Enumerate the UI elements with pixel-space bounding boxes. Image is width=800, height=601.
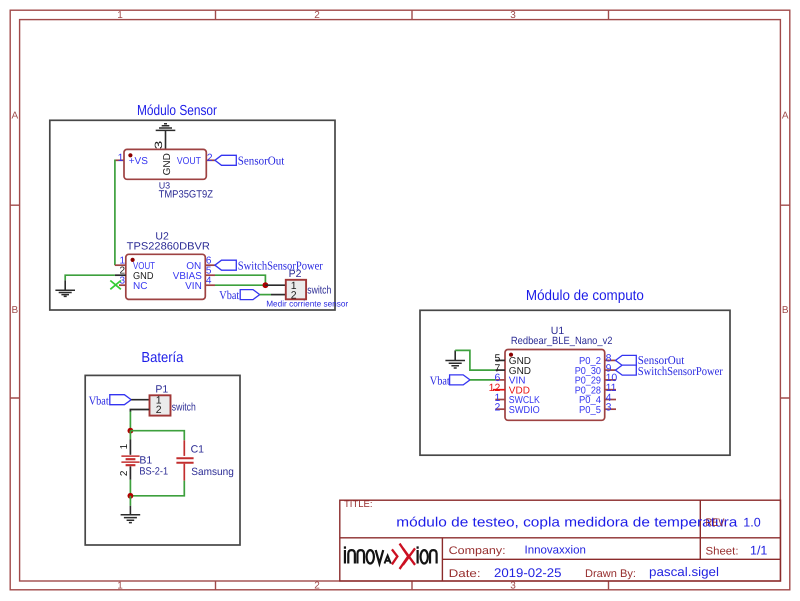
ground GND top of U3 <box>156 124 176 150</box>
ground GND (sensor module) <box>55 280 75 296</box>
svg-text:VOUT: VOUT <box>177 156 201 167</box>
wire ground to U1 pin7 <box>455 350 495 370</box>
U1 pin 11 stub <box>605 389 616 391</box>
svg-text:C1: C1 <box>191 443 205 455</box>
svg-text:SensorOut: SensorOut <box>238 153 285 167</box>
U1 pin 6 stub <box>495 379 505 381</box>
U1 pin 12 stub <box>493 389 505 391</box>
P2 pin2 stub <box>271 294 286 296</box>
U2 pin 2 stub <box>115 274 126 276</box>
svg-text:2: 2 <box>314 10 320 21</box>
svg-text:TMP35GT9Z: TMP35GT9Z <box>159 189 214 201</box>
capacitor C1 bottom lead <box>183 464 185 481</box>
U2 pin 4 stub <box>205 284 215 286</box>
svg-text:B: B <box>782 305 789 316</box>
svg-text:Vbat: Vbat <box>89 394 110 408</box>
connector P2 body <box>286 280 306 300</box>
svg-text:2: 2 <box>119 470 130 476</box>
svg-text:Company:: Company: <box>449 545 506 557</box>
junction node VIN/VBIAS <box>263 282 269 288</box>
svg-text:Redbear_BLE_Nano_v2: Redbear_BLE_Nano_v2 <box>511 335 613 347</box>
title block divider horizontal row2 <box>442 558 780 560</box>
svg-text:3: 3 <box>153 140 165 149</box>
wire U2 pin2 to ground <box>65 275 115 280</box>
svg-text:P2: P2 <box>289 268 302 280</box>
junction node battery bottom <box>127 493 133 499</box>
svg-text:1/1: 1/1 <box>750 544 767 558</box>
ground GND (battery) <box>121 506 141 523</box>
svg-text:BS-2-1: BS-2-1 <box>139 466 168 478</box>
svg-text:1: 1 <box>117 10 123 21</box>
battery B1 plates <box>121 456 139 465</box>
wire U2 pin4 VIN <box>215 284 266 286</box>
wire C1 to junction bottom <box>130 481 184 496</box>
U1 pin 8 stub <box>605 359 616 361</box>
compute module box <box>420 310 730 455</box>
frame row ticks left <box>10 205 19 398</box>
junction node battery top <box>127 428 133 434</box>
U1 pin 9 stub <box>605 369 616 371</box>
wire junction to C1 top <box>130 431 184 441</box>
U1 pin 1 stub <box>495 399 505 401</box>
connector P1 body <box>150 395 171 415</box>
wire P1 pin2 vertical green <box>129 412 131 431</box>
svg-text:B: B <box>11 305 18 316</box>
svg-text:Drawn By:: Drawn By: <box>585 568 636 580</box>
svg-text:3: 3 <box>606 402 612 414</box>
net flag Vbat (battery) <box>110 395 131 405</box>
microcontroller U1 body <box>505 350 605 421</box>
battery B1 bottom lead <box>129 466 131 479</box>
svg-text:VIN: VIN <box>185 281 202 292</box>
capacitor C1 top lead <box>183 440 185 456</box>
svg-text:1.0: 1.0 <box>743 516 760 530</box>
battery module box <box>85 375 240 545</box>
U3 pin 2 stub <box>206 159 215 161</box>
svg-text:A: A <box>11 111 18 122</box>
svg-text:Samsung: Samsung <box>191 466 234 478</box>
svg-text:SwitchSensorPower: SwitchSensorPower <box>238 258 323 272</box>
U1 pin 4 stub <box>605 399 616 401</box>
svg-text:2: 2 <box>207 152 213 164</box>
svg-text:Módulo de computo: Módulo de computo <box>526 288 644 304</box>
wire junction to ground <box>129 496 131 506</box>
title block divider vertical logo cell <box>441 538 443 581</box>
wire P1 pin2 down to junction <box>130 410 149 413</box>
U1 pin 5 stub <box>495 359 505 361</box>
svg-text:3: 3 <box>510 581 516 592</box>
svg-text:TPS22860DBVR: TPS22860DBVR <box>127 240 211 252</box>
svg-text:módulo de testeo, copla medido: módulo de testeo, copla medidora de temp… <box>396 515 738 530</box>
svg-text:Medir corriente sensor: Medir corriente sensor <box>266 299 348 309</box>
svg-text:P0_5: P0_5 <box>579 405 601 416</box>
U2 pin 1 stub <box>115 264 126 266</box>
svg-text:4: 4 <box>206 276 212 287</box>
U3 pin 1 stub <box>115 159 124 161</box>
title block divider horizontal row1 <box>340 537 781 539</box>
transistor-switch U2 body <box>126 254 206 299</box>
U2 pin 3 stub <box>119 284 126 286</box>
net flag SensorOut <box>215 155 236 165</box>
svg-text:1: 1 <box>118 152 124 164</box>
svg-text:Innovaxxion: Innovaxxion <box>525 545 586 557</box>
logo innovaxxion <box>345 544 437 569</box>
svg-text:SwitchSensorPower: SwitchSensorPower <box>638 364 723 378</box>
U1 pin 2 stub <box>495 408 505 410</box>
svg-text:B1: B1 <box>139 454 152 466</box>
svg-text:TITLE:: TITLE: <box>344 499 373 510</box>
wire junction to P2 pin1 <box>265 284 285 286</box>
svg-text:Sheet:: Sheet: <box>706 546 739 558</box>
net flag SwitchSensorPower (U1) <box>616 365 637 375</box>
frame column ticks bottom <box>216 581 609 590</box>
wire U2 pin5 VBIAS <box>215 275 266 285</box>
svg-text:pascal.sigel: pascal.sigel <box>649 565 719 579</box>
wire junction to B1 green segment <box>129 431 131 440</box>
wire Vbat flag to P2 pin2 <box>260 294 271 296</box>
U2 pin 6 stub <box>205 264 215 266</box>
U1 pin 3 stub <box>605 408 616 410</box>
NC cross <box>110 281 121 290</box>
sensor module box <box>50 120 335 310</box>
title block divider vertical rev cell <box>699 500 701 559</box>
U1 origin dot <box>509 353 513 357</box>
svg-text:2019-02-25: 2019-02-25 <box>494 566 562 580</box>
wire B1 to junction bottom <box>129 480 131 496</box>
svg-text:switch: switch <box>172 401 196 413</box>
svg-text:Vbat: Vbat <box>219 288 240 302</box>
svg-text:Vbat: Vbat <box>430 373 451 387</box>
svg-text:2: 2 <box>494 402 500 414</box>
svg-text:SWDIO: SWDIO <box>509 405 540 416</box>
svg-text:Batería: Batería <box>141 350 184 366</box>
svg-text:2: 2 <box>156 404 162 416</box>
svg-text:NC: NC <box>133 281 147 292</box>
svg-text:REV:: REV: <box>706 517 727 529</box>
frame row ticks right <box>780 205 789 398</box>
net flag SensorOut (U1) <box>616 355 637 365</box>
U2 pin 5 stub <box>205 274 215 276</box>
op-amp U3 body <box>124 149 206 179</box>
svg-text:1: 1 <box>119 443 130 449</box>
wire U3 pin1 to U2 pin1 <box>114 160 116 266</box>
U3 origin dot <box>128 153 132 157</box>
capacitor C1 plates <box>176 458 193 463</box>
wire Vbat flag to P1 pin1 <box>131 399 149 401</box>
svg-text:GND: GND <box>162 153 173 175</box>
svg-text:switch: switch <box>307 285 331 297</box>
svg-text:Date:: Date: <box>449 568 481 580</box>
net flag SwitchSensorPower (U2) <box>215 260 236 270</box>
svg-text:Módulo Sensor: Módulo Sensor <box>137 103 217 119</box>
U2 origin dot <box>131 258 135 262</box>
net flag Vbat (compute) <box>450 375 470 385</box>
net flag Vbat (sensor) <box>240 290 260 300</box>
svg-text:+VS: +VS <box>129 156 149 167</box>
svg-text:3: 3 <box>510 10 516 21</box>
ground GND (compute) <box>445 350 465 368</box>
frame column ticks top <box>216 10 609 19</box>
U1 pin 10 stub <box>605 379 616 381</box>
battery B1 top lead <box>129 440 131 455</box>
title block outline <box>340 500 781 581</box>
svg-text:1: 1 <box>117 581 123 592</box>
wire Vbat flag to U1 pin6 <box>470 379 495 381</box>
U1 pin 7 stub <box>495 369 505 371</box>
svg-text:A: A <box>782 111 789 122</box>
svg-text:2: 2 <box>314 581 320 592</box>
